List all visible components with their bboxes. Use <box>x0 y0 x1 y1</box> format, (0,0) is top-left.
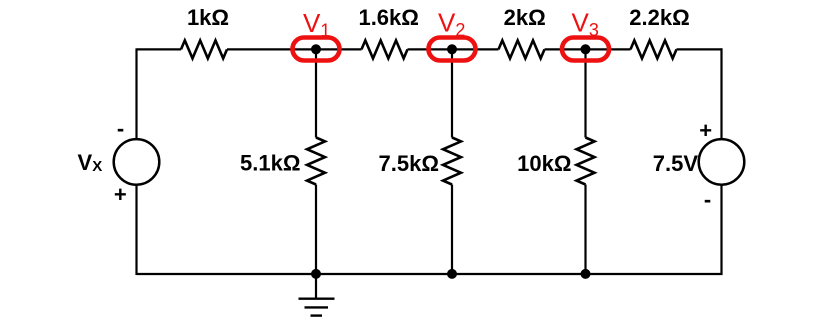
wire R3 to node V3 <box>545 48 631 50</box>
node V2 junction dot <box>447 44 457 54</box>
wire R2 to node V2 <box>408 48 499 50</box>
node V2 red highlight ring <box>429 38 476 61</box>
wire right rail lower <box>720 184 722 275</box>
wire V3 branch upper <box>584 49 586 137</box>
wire left rail lower <box>135 184 137 275</box>
resistor R4 2.2k zigzag <box>631 40 677 58</box>
wire left rail upper <box>135 48 137 139</box>
node V3 junction dot <box>581 44 591 54</box>
svg-text:+: + <box>114 182 127 207</box>
node V3 red highlight ring <box>562 38 609 61</box>
node bottom junction dot below V2 <box>447 269 457 279</box>
wire bottom rail <box>137 273 723 275</box>
svg-text:1kΩ: 1kΩ <box>187 5 229 30</box>
wire top rail left segment <box>137 48 182 50</box>
voltage source Vx circle <box>114 139 160 185</box>
resistor R3 2k zigzag <box>499 40 545 58</box>
node V1 red highlight ring <box>293 38 340 61</box>
svg-text:-: - <box>704 187 711 212</box>
wire V2 branch lower <box>451 185 453 275</box>
resistor R7 10k vertical zigzag <box>577 138 595 185</box>
svg-text:1.6kΩ: 1.6kΩ <box>358 5 418 30</box>
svg-text:5.1kΩ: 5.1kΩ <box>240 151 300 176</box>
wire R1 to node V1 <box>227 48 362 50</box>
wire V1 branch lower <box>315 185 317 275</box>
resistor R6 7.5k vertical zigzag <box>443 138 461 185</box>
svg-text:-: - <box>117 116 124 141</box>
resistor R1 1k zigzag <box>181 40 227 58</box>
svg-text:2.2kΩ: 2.2kΩ <box>629 5 689 30</box>
resistor R5 5.1k vertical zigzag <box>307 138 325 185</box>
node bottom junction dot below V3 <box>581 269 591 279</box>
svg-text:+: + <box>699 118 712 143</box>
node bottom junction dot below V1 <box>311 269 321 279</box>
wire V3 branch lower <box>584 185 586 275</box>
node V1 junction dot <box>311 44 321 54</box>
svg-text:10kΩ: 10kΩ <box>517 151 571 176</box>
resistor R2 1.6k zigzag <box>362 40 408 58</box>
voltage source 7.5V circle <box>699 139 745 185</box>
svg-text:2kΩ: 2kΩ <box>504 5 546 30</box>
wire R4 to top right corner <box>677 48 723 50</box>
wire right rail upper <box>720 48 722 139</box>
svg-text:7.5V: 7.5V <box>653 151 699 176</box>
wire V1 branch upper <box>315 49 317 137</box>
svg-text:7.5kΩ: 7.5kΩ <box>379 151 439 176</box>
wire V2 branch upper <box>451 49 453 137</box>
ground <box>299 274 335 316</box>
